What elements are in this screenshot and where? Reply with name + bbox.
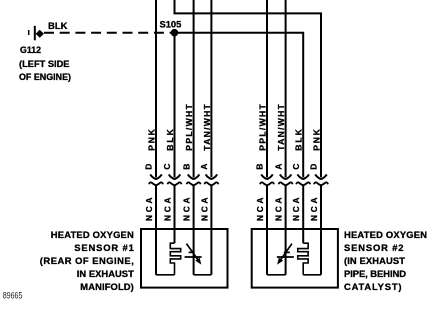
svg-text:PNK: PNK (147, 128, 157, 150)
svg-text:IN EXHAUST: IN EXHAUST (77, 268, 134, 279)
svg-text:MANIFOLD): MANIFOLD) (80, 281, 134, 292)
svg-text:NCA: NCA (144, 198, 154, 222)
svg-text:OF ENGINE): OF ENGINE) (19, 71, 71, 82)
svg-text:NCA: NCA (182, 198, 192, 222)
svg-text:NCA: NCA (274, 198, 284, 222)
svg-text:(REAR OF ENGINE,: (REAR OF ENGINE, (40, 255, 134, 266)
svg-text:BLK: BLK (165, 128, 175, 150)
svg-text:PNK: PNK (312, 128, 322, 150)
svg-text:BLK: BLK (48, 21, 68, 32)
svg-text:NCA: NCA (291, 198, 301, 222)
svg-text:C: C (162, 164, 172, 170)
svg-text:S105: S105 (160, 19, 182, 30)
svg-text:HEATED OXYGEN: HEATED OXYGEN (344, 229, 427, 240)
svg-text:C: C (291, 164, 301, 170)
svg-text:NCA: NCA (163, 198, 173, 222)
svg-text:HEATED OXYGEN: HEATED OXYGEN (51, 229, 134, 240)
svg-text:G112: G112 (20, 45, 41, 56)
svg-text:CATALYST): CATALYST) (344, 281, 402, 292)
svg-text:D: D (309, 164, 319, 170)
svg-text:SENSOR #1: SENSOR #1 (74, 242, 134, 253)
svg-text:(IN EXHAUST: (IN EXHAUST (344, 255, 405, 266)
svg-text:B: B (255, 164, 265, 170)
svg-text:B: B (181, 164, 191, 170)
svg-text:NCA: NCA (255, 198, 265, 222)
svg-text:PIPE, BEHIND: PIPE, BEHIND (344, 268, 406, 279)
svg-text:BLK: BLK (294, 128, 304, 150)
svg-text:(LEFT SIDE: (LEFT SIDE (19, 58, 70, 69)
svg-text:D: D (144, 164, 154, 170)
svg-text:A: A (273, 164, 283, 170)
svg-text:NCA: NCA (309, 198, 319, 222)
svg-text:A: A (199, 164, 209, 170)
svg-text:NCA: NCA (199, 198, 209, 222)
svg-text:89665: 89665 (3, 290, 23, 300)
svg-text:SENSOR #2: SENSOR #2 (344, 242, 404, 253)
